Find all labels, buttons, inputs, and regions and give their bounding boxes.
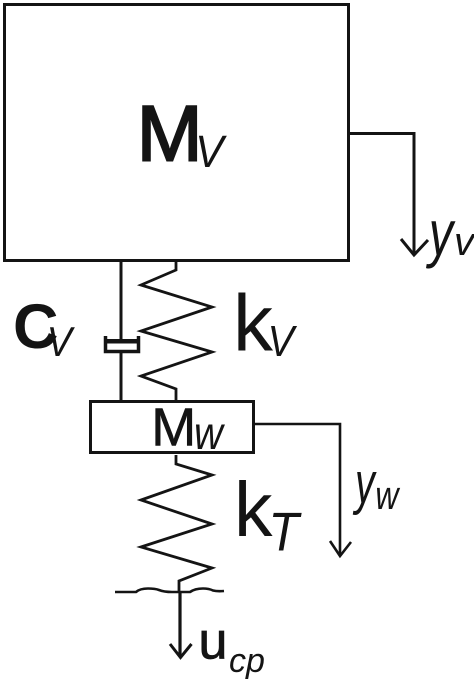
- svg-text:w: w: [375, 473, 401, 518]
- svg-text:y: y: [425, 199, 456, 270]
- svg-text:cp: cp: [229, 642, 265, 680]
- svg-text:V: V: [195, 127, 227, 177]
- svg-text:V: V: [47, 319, 75, 365]
- svg-text:w: w: [194, 408, 226, 459]
- svg-text:M: M: [151, 398, 196, 458]
- svg-text:k: k: [234, 467, 273, 553]
- svg-text:v: v: [454, 220, 474, 264]
- svg-text:V: V: [268, 316, 298, 365]
- svg-text:y: y: [353, 450, 378, 515]
- svg-text:M: M: [137, 89, 203, 178]
- svg-text:T: T: [269, 502, 303, 563]
- svg-text:u: u: [199, 613, 228, 671]
